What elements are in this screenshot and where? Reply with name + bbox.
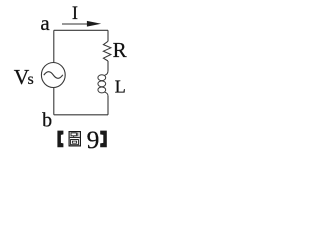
inductor loop 3 (98, 87, 106, 93)
wire right upper (107, 30, 109, 41)
wire bottom (54, 114, 108, 116)
caption character 圖 (69, 132, 80, 146)
svg-text:s: s (28, 71, 34, 88)
wire top (54, 29, 108, 31)
svg-text:a: a (40, 11, 50, 35)
resistor R zigzag (103, 41, 111, 61)
caption bracket left 【 (57, 131, 63, 148)
svg-text:9: 9 (87, 125, 100, 154)
wire left lower (53, 88, 55, 115)
wire right between R and L (107, 61, 109, 71)
wire left upper (53, 30, 55, 62)
svg-text:L: L (115, 76, 126, 96)
svg-text:b: b (42, 110, 52, 132)
current arrow (62, 21, 101, 27)
wire right lower (107, 96, 109, 115)
inductor top hook (105, 71, 108, 76)
inductor loop 2 (98, 81, 106, 87)
svg-text:R: R (113, 38, 127, 62)
inductor bottom hook (105, 92, 108, 96)
source Vs circle (41, 63, 65, 88)
sine wave inside source (44, 72, 63, 79)
svg-text:I: I (72, 4, 78, 24)
inductor loop 1 (98, 75, 106, 81)
caption bracket right 】 (100, 131, 107, 148)
